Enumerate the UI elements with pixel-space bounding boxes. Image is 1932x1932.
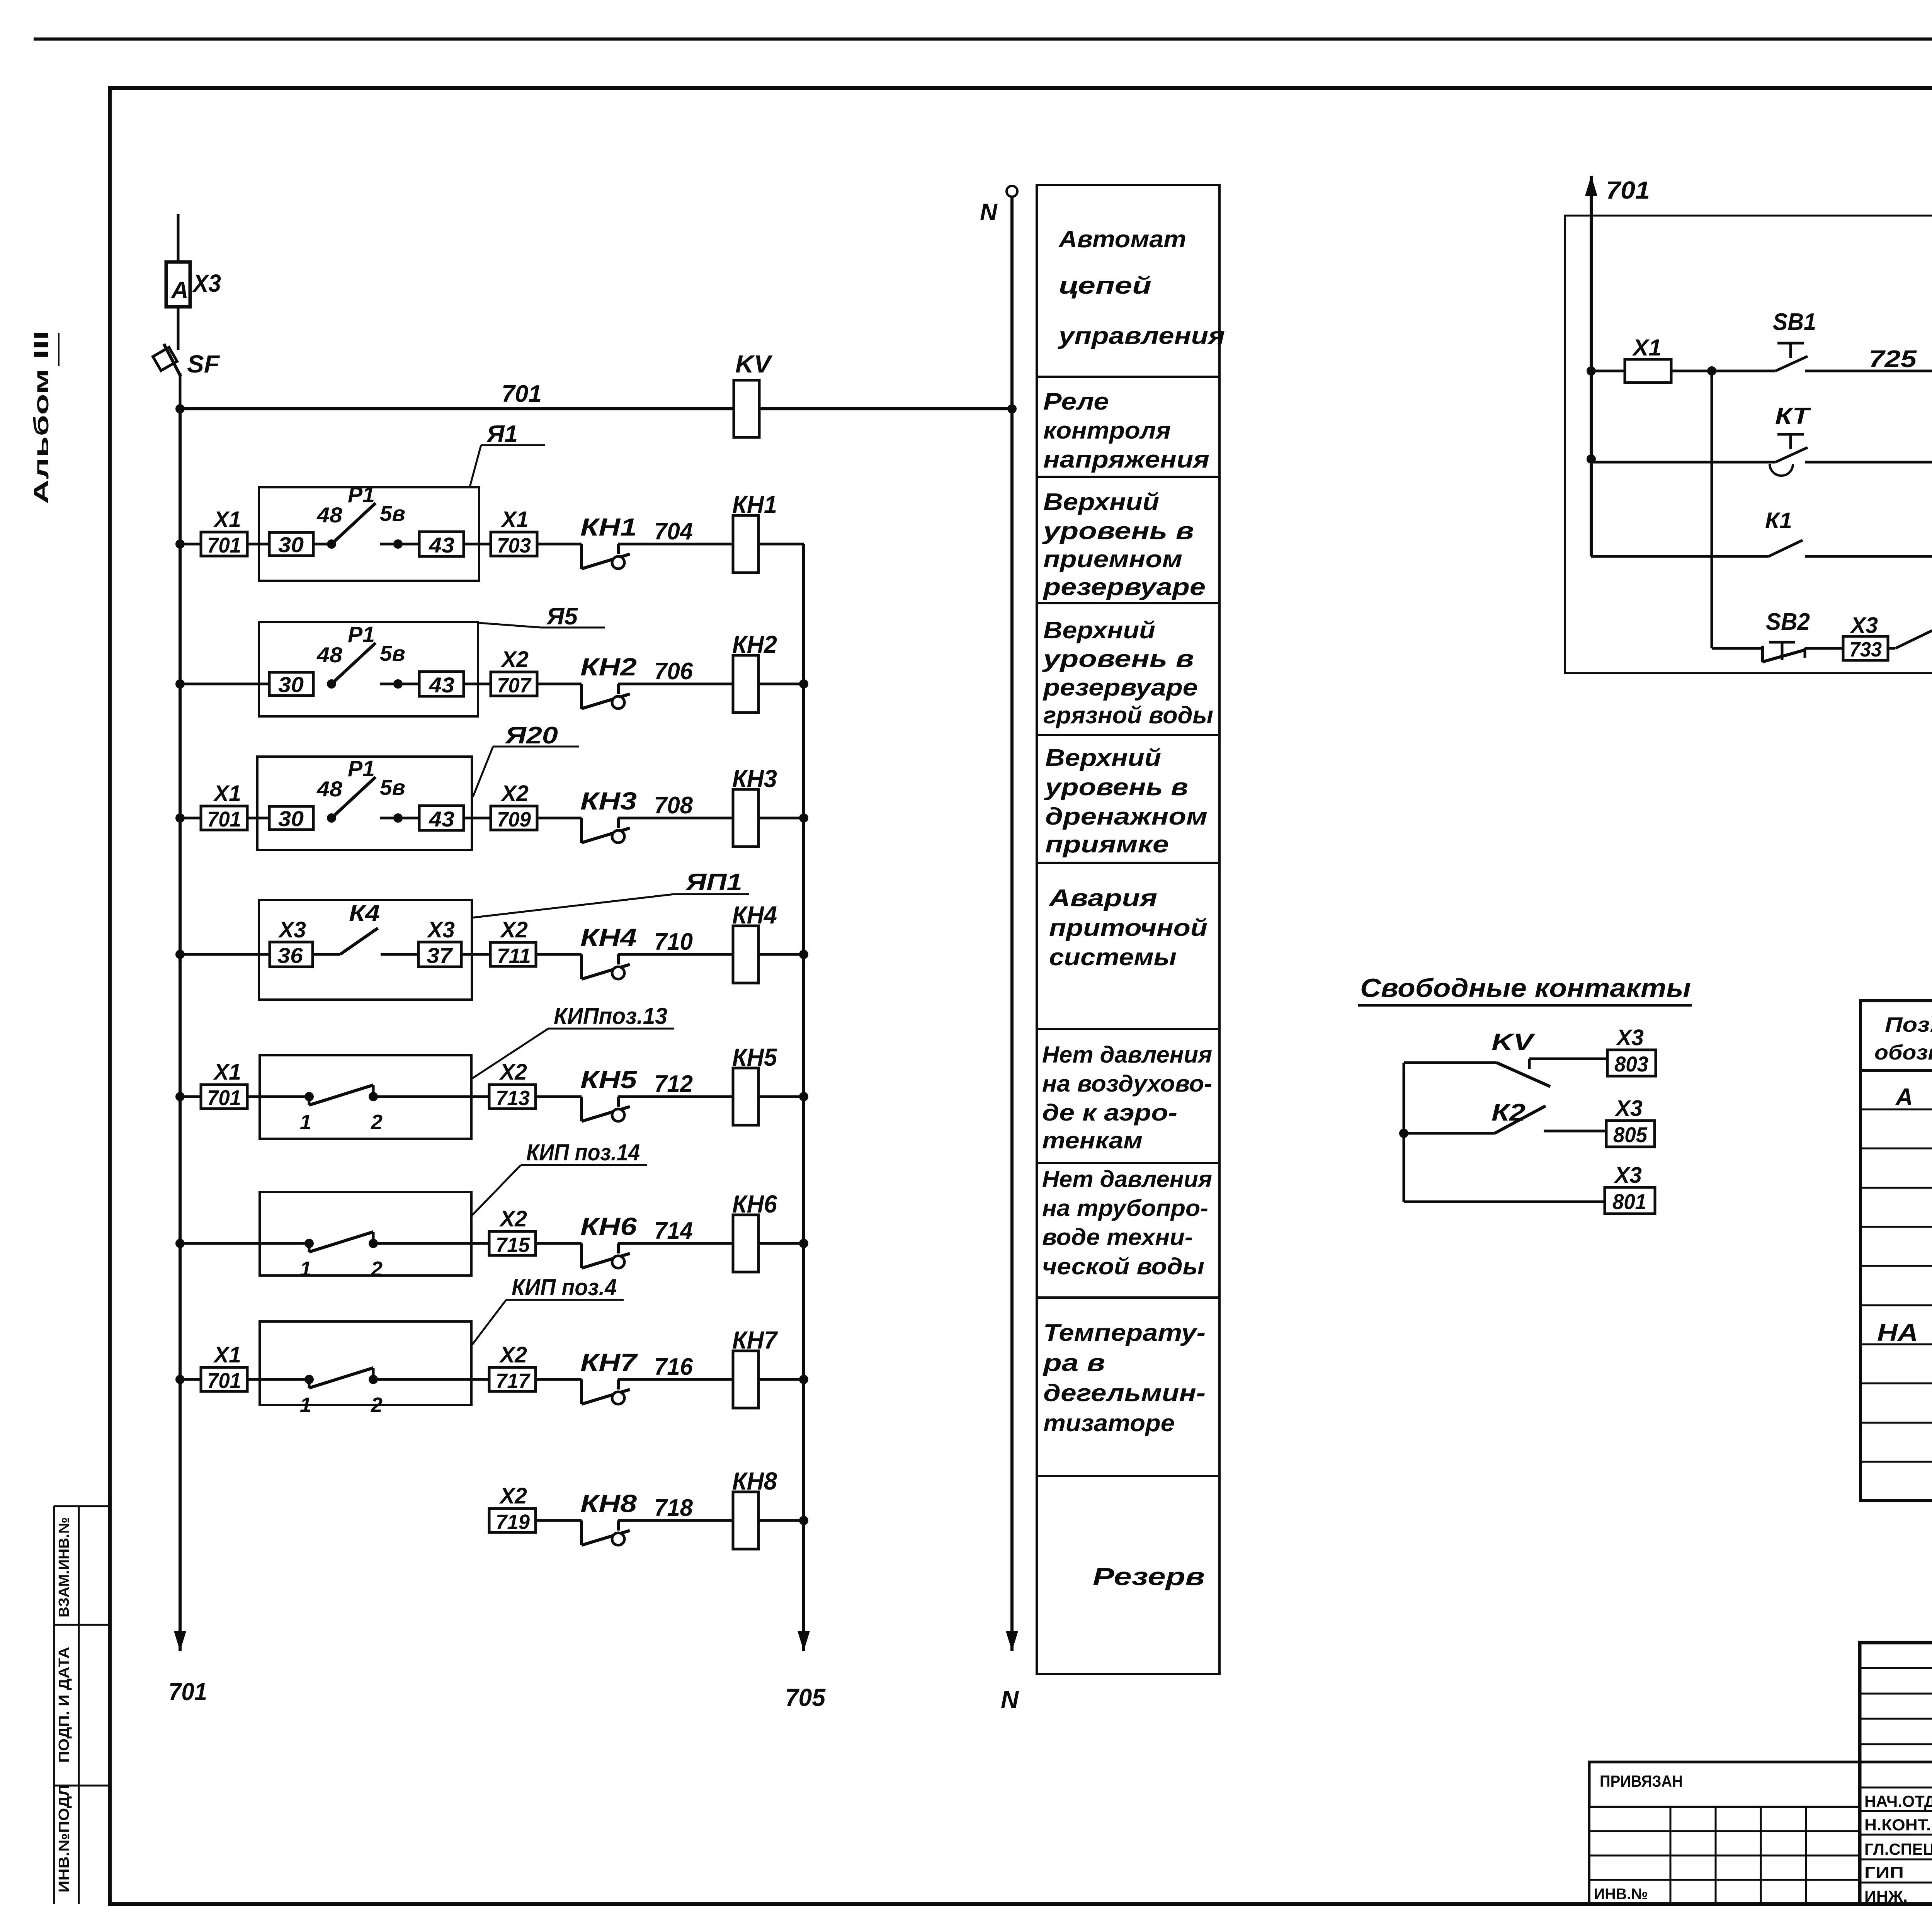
svg-text:Нет давления: Нет давления — [1042, 1166, 1212, 1192]
svg-text:30: 30 — [278, 672, 304, 697]
svg-text:805: 805 — [1613, 1122, 1648, 1147]
box 30 row2 — [269, 672, 313, 697]
svg-text:709: 709 — [497, 808, 531, 831]
wire row4 left — [180, 953, 270, 956]
svg-text:ПРИВЯЗАН: ПРИВЯЗАН — [1600, 1772, 1683, 1790]
table row line 5 — [1861, 1265, 1932, 1267]
svg-text:N: N — [980, 199, 998, 226]
node row6 left — [175, 1239, 185, 1248]
svg-text:X3: X3 — [1614, 1096, 1643, 1121]
svg-text:ИНВ.№ПОДЛ: ИНВ.№ПОДЛ — [56, 1784, 72, 1893]
wire — [313, 543, 332, 546]
wire row 2 to contact — [537, 683, 582, 685]
svg-text:1: 1 — [300, 1393, 311, 1417]
N bus terminal circle — [1007, 186, 1017, 197]
description: Avariya pritochnoy sistemy — [1048, 885, 1207, 971]
svg-text:Резерв: Резерв — [1093, 1563, 1205, 1590]
svg-text:5в: 5в — [380, 641, 405, 665]
svg-text:К1: К1 — [1765, 508, 1792, 533]
svg-text:ра в: ра в — [1042, 1350, 1105, 1376]
bus 701 right circuit — [1585, 176, 1650, 556]
contact P1 row1 — [316, 482, 419, 549]
privyazan box — [1589, 1762, 1860, 1807]
svg-text:X1: X1 — [213, 507, 241, 532]
node row2 right — [799, 679, 808, 689]
horizontal bus 701 with wire number — [180, 407, 1012, 410]
wire coil KH8 to right bus — [759, 1519, 804, 1522]
title block main dividers — [1860, 1762, 1932, 1883]
terminal box X1/701 row5 — [201, 1060, 247, 1110]
svg-text:X1: X1 — [500, 507, 529, 532]
terminal box X3/733 first — [1843, 613, 1888, 661]
svg-text:напряжения: напряжения — [1043, 446, 1209, 473]
svg-text:43: 43 — [429, 807, 454, 831]
terminal box X3/805 — [1606, 1096, 1655, 1147]
description: Temperatura v degelmintizatore — [1042, 1320, 1206, 1437]
svg-text:КН8: КН8 — [732, 1467, 777, 1495]
svg-text:711: 711 — [497, 944, 531, 968]
svg-text:КН2: КН2 — [732, 631, 777, 658]
svg-text:обозн: обозн — [1874, 1041, 1932, 1064]
node row1 left — [175, 539, 185, 549]
svg-text:SB1: SB1 — [1773, 309, 1816, 335]
svg-text:718: 718 — [654, 1495, 693, 1521]
label КИП поз.4 with leader — [472, 1274, 624, 1345]
svg-text:713: 713 — [496, 1087, 530, 1110]
svg-text:ИНЖ.: ИНЖ. — [1864, 1887, 1908, 1905]
svg-text:30: 30 — [278, 806, 304, 831]
svg-text:36: 36 — [277, 943, 303, 968]
limit contact KH3 — [580, 787, 637, 843]
relay coil KH7 — [732, 1326, 778, 1408]
node K2 branch — [1399, 1129, 1408, 1138]
wire 718 — [618, 1519, 733, 1522]
wire 710 — [618, 953, 733, 956]
svg-text:X2: X2 — [499, 1342, 527, 1367]
relay box Ya5 outline — [259, 622, 478, 716]
svg-text:X2: X2 — [500, 647, 529, 672]
description divider 1 — [1037, 376, 1219, 378]
svg-text:КН1: КН1 — [580, 513, 637, 541]
left attribute strip — [54, 1506, 110, 1904]
svg-text:X3: X3 — [1850, 613, 1878, 638]
svg-text:воде техни-: воде техни- — [1042, 1224, 1193, 1250]
label Ya1 with leader — [469, 421, 545, 488]
svg-text:X2: X2 — [499, 1206, 527, 1231]
description: Verkhniy uroven v rezervuare gryaznoy vody — [1042, 617, 1213, 729]
svg-text:контроля: контроля — [1043, 417, 1171, 444]
svg-text:Реле: Реле — [1043, 388, 1109, 415]
wire — [464, 543, 491, 546]
relay coil KH1 — [732, 491, 777, 573]
svg-text:Верхний: Верхний — [1045, 745, 1161, 771]
wire 706 — [618, 683, 733, 685]
svg-text:P1: P1 — [348, 482, 375, 507]
time contact KT — [1770, 403, 1811, 476]
right vertical bus of ladder — [802, 544, 805, 1651]
vertical bus N — [1010, 197, 1014, 1651]
svg-text:43: 43 — [429, 673, 454, 697]
svg-text:КН3: КН3 — [732, 765, 777, 793]
svg-text:приточной: приточной — [1049, 915, 1207, 941]
wire row3 left — [180, 817, 201, 820]
row memory: node on 701 — [1587, 454, 1596, 464]
box 43 row3 — [419, 806, 464, 831]
svg-text:48: 48 — [316, 777, 343, 801]
terminal box X2/711 — [490, 917, 536, 968]
svg-text:X3: X3 — [192, 269, 221, 297]
description: Rele kontrolya napryazheniya — [1043, 388, 1209, 473]
svg-text:КН4: КН4 — [580, 923, 637, 951]
svg-text:706: 706 — [654, 658, 693, 685]
svg-text:резервуаре: резервуаре — [1043, 574, 1206, 600]
wire coil KH3 to right bus — [759, 817, 804, 820]
label КИПпоз.13 with leader — [472, 1003, 674, 1078]
svg-text:Я5: Я5 — [546, 603, 578, 630]
terminal box X1/701 row7 — [201, 1342, 247, 1393]
svg-text:5в: 5в — [380, 775, 405, 799]
wire coil KH4 to right bus — [759, 953, 804, 956]
terminal box X1/703 — [491, 507, 537, 557]
pushbutton SB2 — [1762, 609, 1810, 662]
svg-text:712: 712 — [654, 1071, 693, 1097]
svg-text:714: 714 — [654, 1218, 693, 1244]
svg-text:Верхний: Верхний — [1043, 489, 1159, 515]
table row line 1 — [1861, 1109, 1932, 1111]
svg-text:КИП поз.4: КИП поз.4 — [512, 1274, 617, 1300]
wire 729 — [1805, 461, 1932, 464]
svg-text:КН5: КН5 — [732, 1043, 777, 1071]
svg-text:X3: X3 — [1614, 1163, 1642, 1188]
wire row 8 to contact — [537, 1519, 582, 1522]
terminal box X2/719 — [489, 1483, 536, 1534]
title block outer box — [1860, 1643, 1932, 1904]
wire row 3 to contact — [537, 817, 582, 820]
svg-text:дренажном: дренажном — [1045, 803, 1207, 830]
wire coil KH2 to right bus — [759, 683, 804, 685]
svg-text:ИНВ.№: ИНВ.№ — [1594, 1886, 1648, 1903]
svg-text:KV: KV — [735, 350, 773, 378]
terminal resistor X1 — [1625, 335, 1671, 383]
sensor contact 1-2 row6 — [260, 1232, 471, 1281]
limit contact KH6 — [580, 1213, 637, 1268]
svg-text:уровень в: уровень в — [1044, 774, 1188, 801]
svg-text:ГЛ.СПЕЦ: ГЛ.СПЕЦ — [1864, 1840, 1932, 1858]
contact K2 free — [1404, 1099, 1606, 1133]
description divider 9 — [1037, 1475, 1219, 1477]
svg-text:цепей: цепей — [1059, 272, 1151, 299]
svg-text:1: 1 — [300, 1111, 311, 1134]
svg-text:Свободные контакты: Свободные контакты — [1360, 973, 1691, 1003]
svg-text:KV: KV — [1492, 1029, 1536, 1056]
svg-text:715: 715 — [496, 1233, 530, 1257]
branch wire down to SB2 — [1711, 371, 1713, 648]
terminal box X2/713 — [489, 1060, 536, 1110]
svg-text:КТ: КТ — [1775, 403, 1811, 429]
description: Net davleniya na truboprovode tekhnicheskoy vody — [1042, 1166, 1212, 1279]
description divider 7 — [1037, 1162, 1219, 1164]
terminal box X2/707 — [491, 647, 537, 697]
svg-text:ческой воды: ческой воды — [1042, 1253, 1204, 1279]
svg-text:тенкам: тенкам — [1042, 1128, 1143, 1153]
svg-text:X2: X2 — [500, 781, 529, 806]
parts table outline — [1861, 1001, 1932, 1501]
svg-text:резервуаре: резервуаре — [1043, 674, 1198, 701]
svg-text:37: 37 — [427, 943, 453, 968]
wire to terminal box row5 — [471, 1095, 489, 1098]
svg-text:48: 48 — [316, 643, 343, 667]
wire — [1805, 647, 1843, 650]
svg-text:710: 710 — [654, 929, 693, 955]
svg-text:803: 803 — [1614, 1052, 1648, 1076]
top rule line — [34, 37, 1932, 41]
svg-text:Верхний: Верхний — [1043, 617, 1155, 644]
svg-text:X2: X2 — [499, 1060, 527, 1085]
svg-text:дегельмин-: дегельмин- — [1043, 1380, 1206, 1406]
svg-text:приемном: приемном — [1043, 546, 1182, 573]
svg-text:КН6: КН6 — [580, 1213, 637, 1240]
description: Avtomat tsepey upravleniya — [1057, 226, 1225, 349]
svg-text:КН2: КН2 — [580, 653, 637, 681]
svg-text:705: 705 — [785, 1684, 826, 1711]
description: Verkhniy uroven v drenazhnom priyamke — [1044, 745, 1207, 858]
svg-text:А: А — [170, 277, 189, 304]
svg-text:Автомат: Автомат — [1058, 226, 1186, 253]
svg-text:X3: X3 — [427, 917, 455, 942]
svg-text:725: 725 — [1869, 346, 1917, 372]
terminal box X3/803 — [1607, 1025, 1656, 1076]
wire — [464, 683, 491, 685]
row alarm: contact K1 — [1591, 508, 1803, 556]
fuse A X3 — [166, 262, 221, 307]
node row6 right — [799, 1239, 808, 1248]
contact K2 — [1895, 610, 1932, 648]
terminal box X2/709 — [491, 781, 537, 831]
svg-text:701: 701 — [168, 1678, 207, 1706]
svg-text:701: 701 — [207, 533, 241, 557]
wire row5 left — [180, 1095, 201, 1098]
node row7 left — [175, 1375, 185, 1384]
box 30 row3 — [269, 806, 313, 831]
relay coil KH3 — [732, 765, 777, 847]
svg-text:ВЗАМ.ИНВ.№: ВЗАМ.ИНВ.№ — [56, 1517, 72, 1617]
svg-text:P1: P1 — [348, 756, 375, 781]
limit contact KH7 — [580, 1349, 638, 1404]
svg-text:2: 2 — [371, 1393, 383, 1417]
label YaP1 with leader — [472, 869, 749, 918]
wire: fuse to SF — [177, 307, 180, 350]
limit contact KH2 — [580, 653, 637, 709]
wire to terminal box row6 — [471, 1242, 489, 1245]
relay coil KH5 — [732, 1043, 777, 1125]
table row line 10 — [1861, 1461, 1932, 1463]
description divider 2 — [1037, 476, 1219, 478]
svg-text:НАЧ.ОТД.: НАЧ.ОТД. — [1864, 1792, 1932, 1810]
wire 704 — [618, 543, 733, 546]
svg-text:КИПпоз.13: КИПпоз.13 — [554, 1003, 667, 1029]
contact P1 row3 — [316, 756, 419, 823]
table row line 3 — [1861, 1187, 1932, 1189]
svg-text:5в: 5в — [380, 501, 405, 526]
description divider 4 — [1037, 734, 1219, 736]
pushbutton SB1 — [1773, 309, 1816, 371]
svg-text:707: 707 — [497, 674, 532, 697]
svg-text:Я1: Я1 — [486, 421, 518, 447]
sensor box KIP row6 — [260, 1192, 471, 1276]
svg-text:X1: X1 — [213, 1060, 241, 1085]
box 43 row1 — [419, 532, 464, 557]
svg-text:КН7: КН7 — [580, 1349, 638, 1376]
sensor box KIP row5 — [260, 1055, 471, 1139]
label Ya20 with leader — [473, 722, 579, 797]
svg-text:716: 716 — [654, 1354, 693, 1380]
svg-text:X2: X2 — [499, 1483, 527, 1509]
limit contact KH4 — [580, 923, 637, 979]
wire row 1 to contact — [537, 543, 582, 546]
wire to X3/801 — [1404, 1201, 1605, 1203]
svg-text:701: 701 — [207, 1085, 241, 1110]
svg-text:48: 48 — [316, 503, 343, 527]
wire 714 — [618, 1242, 733, 1245]
svg-text:ПОДП. И ДАТА: ПОДП. И ДАТА — [56, 1647, 72, 1763]
node branch to SB2 — [1707, 366, 1716, 376]
svg-text:717: 717 — [496, 1369, 531, 1393]
wire: SF to bus 701 tee — [179, 373, 182, 409]
svg-text:X1: X1 — [1632, 335, 1662, 361]
wire coil KH1 to right bus — [759, 543, 804, 546]
table header Poz obozn — [1874, 1013, 1932, 1064]
svg-text:P1: P1 — [348, 622, 375, 647]
svg-text:КИП поз.14: КИП поз.14 — [526, 1139, 640, 1165]
description column box — [1037, 185, 1219, 1674]
wire row7 left — [180, 1378, 201, 1381]
terminal box X2/717 — [489, 1342, 536, 1393]
left vertical bus 701 — [179, 409, 182, 1651]
svg-text:КН7: КН7 — [732, 1326, 778, 1354]
wire — [248, 543, 269, 546]
node row4 right — [799, 950, 808, 959]
svg-text:ЯП1: ЯП1 — [685, 869, 742, 896]
limit contact KH5 — [580, 1066, 638, 1121]
svg-text:X3: X3 — [278, 917, 306, 942]
wire — [1888, 647, 1895, 650]
relay box YaP1 outline — [259, 900, 472, 1000]
svg-text:НА: НА — [1877, 1320, 1918, 1346]
table row line 7 — [1861, 1344, 1932, 1345]
node: 701 bus joins N bus — [1007, 404, 1017, 413]
svg-text:719: 719 — [496, 1510, 530, 1534]
sensor contact 1-2 row5 — [260, 1085, 471, 1134]
svg-text:КН8: КН8 — [580, 1490, 637, 1517]
table row line 4 — [1861, 1226, 1932, 1228]
terminal box X1/701 row1 — [201, 507, 247, 557]
svg-text:А: А — [1895, 1084, 1913, 1111]
wire row 4 to contact — [537, 953, 582, 956]
svg-text:Авария: Авария — [1048, 885, 1157, 912]
svg-text:Поз.: Поз. — [1885, 1013, 1932, 1036]
label Ya5 with leader — [479, 603, 605, 630]
svg-text:Температу-: Температу- — [1043, 1320, 1206, 1346]
svg-text:КН3: КН3 — [580, 787, 637, 815]
relay box Ya20 outline — [257, 757, 472, 850]
cabinet A thin outline — [1565, 216, 1932, 673]
svg-text:30: 30 — [278, 532, 304, 557]
title block horizontal lines upper grid — [1860, 1668, 1932, 1744]
svg-text:701: 701 — [1606, 176, 1650, 204]
svg-text:708: 708 — [654, 792, 693, 819]
sensor box KIP row7 — [260, 1321, 471, 1405]
node row8 right — [799, 1516, 808, 1525]
terminal box X1/701 row3 — [201, 781, 247, 831]
svg-text:1: 1 — [300, 1257, 311, 1281]
svg-text:703: 703 — [497, 534, 531, 557]
svg-text:КН4: КН4 — [732, 901, 777, 929]
wire coil KH5 to right bus — [759, 1095, 804, 1098]
relay coil KH8 — [732, 1467, 777, 1549]
svg-text:уровень в: уровень в — [1042, 518, 1194, 544]
svg-text:SB2: SB2 — [1766, 609, 1810, 635]
svg-text:Я20: Я20 — [505, 722, 558, 749]
wire 725 — [1805, 370, 1932, 372]
svg-text:приямке: приямке — [1045, 831, 1169, 858]
svg-text:на трубопро-: на трубопро- — [1042, 1195, 1208, 1221]
terminal box X2/715 — [489, 1206, 536, 1257]
svg-text:2: 2 — [371, 1111, 383, 1134]
svg-text:Н.КОНТ.: Н.КОНТ. — [1864, 1816, 1931, 1834]
sensor contact 1-2 row7 — [260, 1368, 471, 1417]
wire KT contact row — [1591, 461, 1776, 464]
node row3 right — [799, 813, 808, 823]
svg-text:X2: X2 — [500, 917, 528, 942]
relay coil KH6 — [732, 1190, 777, 1272]
box 43 row2 — [419, 672, 464, 697]
contact KV free — [1404, 1029, 1607, 1087]
wire row6 left — [180, 1242, 260, 1245]
signature titles column — [1864, 1792, 1932, 1905]
wire 712 — [618, 1095, 733, 1098]
svg-text:КН6: КН6 — [732, 1190, 777, 1218]
terminal box X3/37 — [418, 917, 461, 968]
svg-text:733: 733 — [1849, 638, 1882, 661]
svg-text:на воздухово-: на воздухово- — [1042, 1071, 1212, 1097]
wire 708 — [618, 817, 733, 820]
wire row2 left — [180, 683, 269, 685]
contact K4 — [313, 900, 418, 954]
node row5 left — [175, 1092, 185, 1101]
table row line 9 — [1861, 1422, 1932, 1424]
wire row 6 to contact — [537, 1242, 582, 1245]
limit contact KH8 — [580, 1490, 637, 1545]
wire to X1 — [1591, 370, 1625, 372]
wire to terminal box row7 — [471, 1378, 489, 1381]
svg-text:801: 801 — [1612, 1189, 1646, 1214]
svg-text:К4: К4 — [349, 900, 380, 926]
description divider 8 — [1037, 1296, 1219, 1299]
table row line 8 — [1861, 1383, 1932, 1384]
svg-text:X3: X3 — [1616, 1025, 1644, 1050]
relay coil KH2 — [732, 631, 777, 713]
wire: incoming supply drop — [177, 214, 180, 262]
rotated label Album III — [30, 330, 59, 504]
svg-text:701: 701 — [502, 381, 542, 407]
bell row wire left — [1712, 647, 1762, 650]
terminal box X3/801 — [1605, 1163, 1655, 1214]
description divider 5 — [1037, 862, 1219, 864]
wire row 7 to contact — [537, 1378, 582, 1381]
wire row1 left — [180, 543, 201, 546]
svg-text:X1: X1 — [213, 781, 241, 806]
svg-text:701: 701 — [207, 1368, 241, 1393]
